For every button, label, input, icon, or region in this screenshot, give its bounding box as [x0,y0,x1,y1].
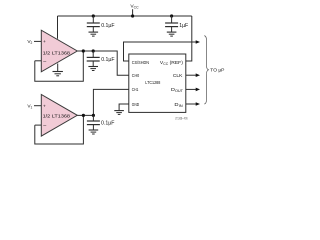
svg-text:CS/SHDN: CS/SHDN [132,60,150,66]
wire: CLK to microprocessor [186,74,197,76]
ground: U1a V- pin [53,64,63,76]
IC U2 LTC1288 body [129,54,186,112]
arrowhead: CS/SHDN line [196,40,200,44]
svg-text:CH1: CH1 [132,87,139,93]
ground below C4 [89,130,99,134]
wire: U1b inverting input [35,124,42,126]
capacitor C4 0.1uF (CH1 filter) [87,115,100,130]
wire: U1b feedback loop [35,115,84,144]
svg-text:LT1368 • F06: LT1368 • F06 [175,116,188,120]
svg-text:+: + [43,104,46,109]
svg-text:TO µP: TO µP [210,68,224,74]
wire: U1a output to CH0 [77,51,129,75]
node: VCC tap junction [131,9,134,17]
svg-text:1/2 LT1368: 1/2 LT1368 [43,50,71,56]
svg-text:0.1µF: 0.1µF [101,57,114,63]
svg-text:1µF: 1µF [179,23,188,29]
node: U1b output / C4 junction [92,114,95,117]
ground: GND pin [114,111,124,115]
wire: U1a inverting input [35,60,42,62]
svg-text:CLK: CLK [173,73,183,79]
svg-text:+: + [43,40,46,45]
svg-text:0.1µF: 0.1µF [101,23,114,29]
wire: U1b output to CH1 [77,89,129,115]
node: U1a output / C3 junction [92,49,95,52]
node: rail / C1 junction [92,14,95,17]
ground below C1 [89,32,99,36]
wire: VCC (REF) pin to rail [186,16,192,61]
brace: signals to microprocessor [204,36,208,104]
wire: V1 input to U1b + [34,105,41,107]
op-amp U1a (1/2 LT1368, top buffer) [41,30,77,72]
svg-text:–: – [43,59,46,65]
arrowhead: DIN line [196,102,200,106]
svg-text:1/2 LT1368: 1/2 LT1368 [43,113,71,119]
wire: V2 input to U1a + [34,40,41,42]
svg-text:LTC1288: LTC1288 [145,80,160,86]
arrowhead: DOUT line [196,88,200,92]
arrowhead: CLK line [196,73,200,77]
wire: VCC supply rail [58,15,192,17]
wire: GND pin to ground [119,104,129,111]
wire: DOUT to microprocessor [186,88,197,90]
svg-text:–: – [43,123,46,129]
node: U1a output / feedback junction [82,49,85,52]
capacitor C2 1uF (reference bypass) [165,16,178,32]
ground below C2 [167,32,177,36]
wire: V+ stub from rail to op-amp U1a [57,16,59,39]
svg-text:0.1µF: 0.1µF [101,121,114,127]
svg-text:GND: GND [132,102,140,108]
wire: DIN to microprocessor [186,103,197,105]
capacitor C3 0.1uF (CH0 filter) [87,51,100,67]
wire: U1a feedback loop [35,51,84,81]
node: U1b output / feedback junction [82,114,85,117]
wire: CS/SHDN to microprocessor [124,42,197,61]
ground below C3 [88,67,98,71]
op-amp U1b (1/2 LT1368, bottom buffer) [41,95,77,137]
capacitor C1 0.1uF (rail bypass) [87,16,100,32]
node: rail / C2 junction [170,14,173,17]
svg-text:CH0: CH0 [132,73,140,79]
